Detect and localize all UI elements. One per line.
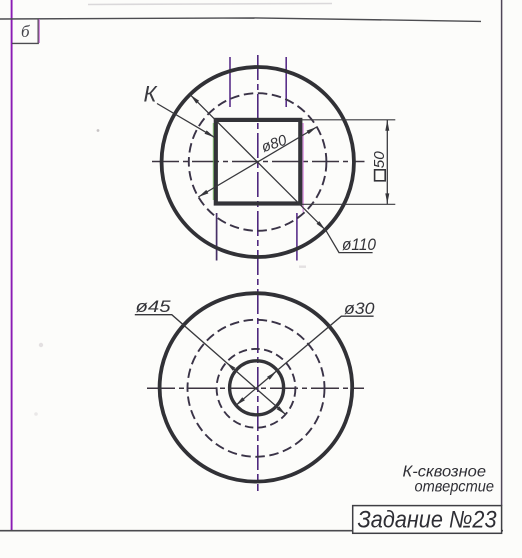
top view dashed circle ø80 [189, 93, 327, 231]
ø110 dimension line [190, 95, 372, 253]
bottom view dashed circle large [188, 320, 325, 457]
faint speck [39, 343, 43, 347]
projection line lower left [216, 213, 218, 261]
K leader line [157, 104, 215, 138]
square hole 50x50 [216, 120, 300, 204]
vertical centre line (both views) [257, 55, 259, 491]
projection line upper left [229, 57, 231, 107]
left margin purple line [11, 0, 13, 531]
right border line [501, 0, 503, 506]
faint scan line top edge [88, 4, 332, 5]
svg-text:ø45: ø45 [136, 298, 172, 316]
projection line lower right [296, 213, 298, 261]
svg-text:50: 50 [371, 151, 388, 169]
bottom view outer circle [160, 293, 353, 481]
top view horizontal centre line [152, 161, 365, 163]
corner cell "б" box [12, 19, 38, 44]
svg-text:ø30: ø30 [344, 300, 375, 318]
ø45 dimension line [135, 315, 286, 415]
label square-50 [375, 170, 386, 181]
top border line [0, 18, 481, 22]
ø80 dimension line [198, 127, 316, 197]
title box [353, 506, 502, 534]
svg-text:ø110: ø110 [342, 235, 376, 254]
svg-text:ø80: ø80 [259, 131, 289, 156]
projection line upper right [285, 57, 287, 107]
bottom view dashed circle small [217, 349, 296, 428]
bottom view horizontal centre line [147, 387, 364, 389]
svg-text:Задание №23: Задание №23 [358, 507, 498, 534]
ø30 dimension line [236, 316, 374, 405]
svg-text:б: б [21, 22, 30, 41]
bottom border line [0, 530, 503, 532]
top view outer circle ø110 [162, 67, 354, 257]
svg-text:К: К [144, 82, 158, 107]
bottom view thick circle ø30 [230, 361, 284, 415]
faint speck [97, 129, 100, 132]
faint speck [299, 266, 306, 268]
faint speck [34, 412, 38, 416]
50 dimension line [386, 120, 388, 205]
50 extension lines [302, 119, 396, 121]
svg-text:отверстие: отверстие [415, 479, 495, 496]
